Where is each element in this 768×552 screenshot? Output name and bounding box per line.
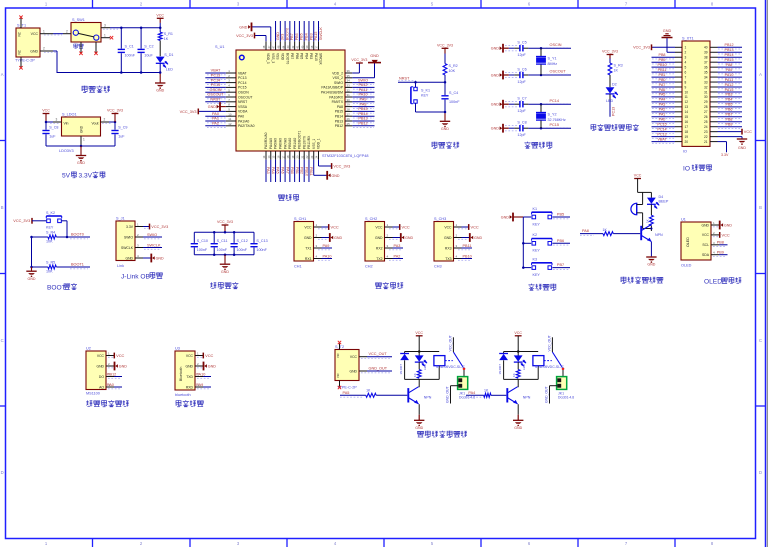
mcu right pin PA14/USB/DM [321,88,375,95]
svg-text:S_R2: S_R2 [449,64,458,68]
power port VCC_3V3 ldo [107,109,123,122]
net VCC_OUT [359,352,392,358]
svg-text:GND: GND [738,146,746,150]
svg-text:PA9: PA9 [360,98,367,102]
capacitor S_C5 / net OSCIN [491,41,571,57]
svg-text:PB6: PB6 [295,33,299,40]
mcu top pin PB5 [296,21,304,59]
svg-text:S_C4: S_C4 [449,91,458,95]
svg-text:100nF: 100nF [237,248,248,252]
svg-text:PA11: PA11 [359,88,368,92]
svg-text:OSCIN: OSCIN [550,43,562,47]
mcu right pin PB12 [335,122,375,129]
svg-text:1N4007: 1N4007 [498,364,502,375]
svg-text:VCC: VCC [331,225,339,230]
key K1 [523,207,570,227]
wire [650,226,652,231]
wire switch to conn [463,370,465,378]
svg-text:VCC_3V3: VCC_3V3 [633,46,650,50]
svg-text:PC15: PC15 [238,86,247,90]
label 开关 [73,44,83,49]
svg-text:PB3: PB3 [309,53,313,59]
jlink pin SWIO [143,233,162,239]
header left pin 15 PA1 [652,113,676,119]
svg-text:GND: GND [724,224,732,228]
svg-text:PA9: PA9 [196,383,203,387]
wire emitter [517,404,519,415]
svg-text:100nF: 100nF [217,248,228,252]
svg-text:PC14: PC14 [550,99,560,103]
pin RX1 S_CH1 [305,254,332,261]
wire top rail [194,231,254,234]
svg-text:1K: 1K [512,373,516,377]
svg-text:PB14: PB14 [724,53,733,57]
svg-text:PB4: PB4 [304,53,308,59]
capacitor S_C6 / net OSCOUT [491,67,571,83]
pin GND S_CH1 [304,233,343,242]
led D4 BEEP [647,192,669,208]
mcu left pin NRST [205,98,247,105]
svg-text:PA13/USB/DP: PA13/USB/DP [321,86,343,90]
svg-text:PB2: PB2 [300,167,304,174]
svg-text:PB5: PB5 [557,213,564,217]
svg-text:29: 29 [704,100,708,104]
wire emitter [418,404,420,415]
svg-text:LED: LED [423,363,427,370]
ground relay [513,415,523,430]
oled pin VCC [713,232,730,238]
svg-text:OLED: OLED [704,278,722,285]
mcu right pin PB14 [335,112,375,119]
svg-text:NRST: NRST [399,76,410,80]
svg-text:GND: GND [375,236,383,240]
svg-text:PA8: PA8 [726,63,733,67]
label 主芯片 [279,194,299,201]
svg-text:VBAT: VBAT [211,69,221,73]
ground boot [26,267,36,281]
pin VCC S_CH1 [304,223,339,230]
header right pin 36 PA8 [718,63,743,69]
svg-text:32.768KHz: 32.768KHz [548,118,566,122]
svg-text:GND: GND [239,25,247,29]
t2 pin bottom [338,381,341,390]
header right pin 34 PA10 [718,73,743,79]
svg-text:VCC_3V3: VCC_3V3 [333,164,350,168]
svg-text:SWCLK: SWCLK [147,243,161,247]
svg-text:D2: D2 [612,83,617,87]
svg-text:PA8: PA8 [360,102,367,106]
mcu right pin SWIO [334,78,375,85]
svg-text:bluetooth: bluetooth [175,393,191,397]
svg-text:PC13: PC13 [238,76,247,80]
svg-text:PA15: PA15 [314,32,318,41]
wire VCC rail [110,27,160,29]
svg-text:PA10: PA10 [196,372,205,376]
svg-text:10K: 10K [46,270,53,274]
svg-text:VCC: VCC [444,225,452,229]
svg-text:PB15: PB15 [724,58,733,62]
svg-text:J-Link OB: J-Link OB [121,273,151,280]
svg-text:SWIO: SWIO [124,235,133,239]
svg-text:NC: NC [18,31,22,36]
capacitor S_C11 [211,232,228,254]
svg-text:GND_OUT: GND_OUT [545,386,549,403]
svg-text:TX3: TX3 [445,257,451,261]
svg-text:PC13: PC13 [211,74,221,78]
svg-text:A: A [1,72,4,77]
header pins row 12 [675,100,718,104]
svg-text:1K: 1K [614,69,619,73]
svg-text:37: 37 [704,60,708,64]
u3 pin TXD [196,372,211,378]
svg-text:GND: GND [349,369,357,373]
header right pin 25 PB8 [718,118,743,124]
mcu bottom pin VDD_1 vcc [315,138,351,169]
pin TX2 S_CH2 [376,254,403,261]
svg-text:PB9: PB9 [726,123,733,127]
pin 3 [50,118,62,124]
header pins row 5 [675,65,718,69]
svg-text:D4: D4 [659,195,664,199]
svg-text:B: B [759,205,762,210]
svg-text:1: 1 [685,46,687,50]
svg-text:28: 28 [704,105,708,109]
svg-text:PC13: PC13 [612,107,616,116]
capacitor S_C2 [138,28,154,73]
wire [53,33,63,35]
oled U1 body [681,217,719,267]
svg-text:KEY: KEY [46,226,54,230]
svg-text:GND: GND [208,105,216,109]
jlink pin 3.3V [143,224,168,230]
svg-text:SRD-05VDC-SL-C: SRD-05VDC-SL-C [436,365,465,369]
label IO拓展口 [683,164,712,172]
svg-text:PA0: PA0 [238,115,244,119]
resistor S_R2 [443,64,458,75]
svg-text:PA15: PA15 [725,88,734,92]
svg-text:10: 10 [228,112,232,116]
capacitor S_C8 [42,122,58,146]
svg-text:S_C2: S_C2 [144,45,153,49]
svg-text:GND: GND [96,364,104,368]
svg-text:12: 12 [228,122,232,126]
svg-text:BOOT0: BOOT0 [71,232,84,236]
svg-text:40: 40 [704,46,708,50]
svg-text:VSS_3: VSS_3 [271,53,275,63]
svg-text:D: D [1,470,4,475]
svg-text:29: 29 [347,103,351,107]
svg-text:GND_OUT: GND_OUT [446,386,450,403]
svg-text:3V3: 3V3 [281,34,285,41]
header right pin 28 PB5 [718,103,743,109]
svg-text:1: 1 [83,138,85,142]
svg-text:1K: 1K [484,389,489,393]
svg-text:S_Y2: S_Y2 [548,113,557,117]
header left pin 17 PC15 [652,123,676,129]
svg-text:PA9: PA9 [323,244,330,248]
resistor S_R5 [46,261,56,274]
power port VCC ldo [42,109,50,122]
svg-text:SWCLK: SWCLK [319,53,323,66]
crystal S_Y2 32.768KHz [536,104,566,128]
svg-text:VDD: VDD [281,53,285,61]
header pins row 6 [675,70,718,74]
svg-text:VCC: VCC [402,225,410,230]
svg-text:31: 31 [347,93,351,97]
svg-text:VBAT: VBAT [657,137,667,141]
svg-text:PC14: PC14 [657,127,666,131]
mcu pin VSSA gnd [208,102,248,111]
svg-text:1: 1 [43,29,45,33]
svg-text:8: 8 [685,80,687,84]
svg-text:S_J1: S_J1 [116,216,125,220]
svg-text:S_R1: S_R1 [164,32,173,36]
header left pin 13 PA3 [652,103,676,109]
svg-text:GND: GND [28,277,36,281]
wire [61,221,68,238]
svg-text:GND: GND [441,127,449,131]
header pins row 3 [675,56,718,60]
header right pin 38 PB14 [718,53,743,59]
svg-text:S_T1: S_T1 [17,24,26,28]
svg-text:S_CH1: S_CH1 [294,217,306,221]
label 晶振电路 [524,142,552,149]
header pins row 14 [675,110,718,114]
power port VCC_3V3 boot [13,218,46,224]
svg-text:PB3: PB3 [726,93,733,97]
svg-text:23: 23 [704,130,708,134]
power port VCC alarm [634,174,642,193]
svg-text:A: A [759,72,762,77]
power port VCC relay [514,331,522,352]
mcu bottom pin PA3/RX/A0 [262,132,270,182]
pin TX1 S_CH1 [305,244,332,251]
svg-text:PA11: PA11 [725,78,733,82]
svg-text:PB9: PB9 [717,251,724,255]
svg-text:PB3: PB3 [309,33,313,40]
mcu right pin PA9/TX [332,98,375,105]
power port VCC_3V3 reset [437,44,453,64]
svg-text:GND: GND [501,216,509,220]
header right pin 40 PB12 [718,43,743,49]
svg-text:PB6: PB6 [295,53,299,59]
svg-text:GND: GND [156,89,164,93]
svg-text:PB13: PB13 [724,48,733,52]
capacitor S_C9 [111,122,127,146]
diode 1N4007 [498,352,508,380]
svg-text:NPN: NPN [424,396,432,400]
svg-text:SWIO: SWIO [358,78,368,82]
svg-text:S_CH2: S_CH2 [365,217,377,221]
svg-text:C: C [759,338,762,343]
svg-text:PC15: PC15 [550,123,560,127]
header left pin 6 PB11 [652,68,676,74]
svg-text:34: 34 [347,79,351,83]
svg-text:1K: 1K [164,37,169,41]
header pins row 17 [675,125,718,129]
mcu pin VDDA vcc [180,108,249,115]
svg-text:PA8: PA8 [337,105,343,109]
svg-text:1uF: 1uF [118,135,125,139]
wire [609,94,611,117]
svg-text:GND: GND [125,256,133,260]
wire gnd_out [545,386,558,404]
svg-text:KEY: KEY [533,249,541,253]
label JK1 [558,391,574,399]
svg-text:VCC_3V3: VCC_3V3 [236,34,253,38]
wire gnd_out [446,386,459,404]
header right pin 33 PA11 [718,78,743,84]
svg-text:VCC_3V3: VCC_3V3 [437,44,453,48]
svg-text:PB6: PB6 [726,108,733,112]
svg-text:4: 4 [685,60,687,64]
header pins row 8 [675,80,718,84]
net GND_OUT [359,367,392,373]
svg-text:GND: GND [491,103,499,107]
led relay [415,352,427,371]
svg-text:Vout: Vout [91,122,98,126]
svg-text:GND: GND [370,54,379,58]
part SRD-05VDC-SL-C [436,365,465,369]
mcu bottom pin PA7/A0 [281,138,289,182]
header left pin 9 PA7 [652,83,676,89]
svg-text:VDD_3: VDD_3 [266,53,270,64]
header pin2 gnd [662,29,676,52]
svg-text:32: 32 [704,85,708,89]
svg-text:18: 18 [685,130,689,134]
power port VCC_3V3 filter [217,220,233,232]
svg-text:OSCOUT: OSCOUT [550,70,567,74]
svg-text:35: 35 [704,70,708,74]
u3 pin VCC [197,353,214,359]
svg-text:3.3V: 3.3V [721,153,729,157]
svg-text:VSS_2: VSS_2 [332,76,343,80]
pin 2 [101,118,113,124]
mcu right pin PB15 [335,107,375,114]
svg-text:19: 19 [685,135,689,139]
svg-text:PA0: PA0 [212,112,219,116]
svg-text:AO: AO [99,385,104,389]
svg-text:VSS: VSS [276,53,280,60]
svg-text:PB9: PB9 [659,58,666,62]
mcu top pin PB7 [286,21,294,59]
svg-text:CH1: CH1 [294,264,302,268]
svg-text:PB0/A0: PB0/A0 [288,138,292,149]
bluetooth U3 body [175,346,203,397]
svg-text:PA0: PA0 [107,383,114,387]
svg-text:9: 9 [685,85,687,89]
svg-text:GND: GND [30,49,38,53]
resistor S_R3 [608,63,623,75]
ground [155,71,165,92]
header left pin 16 PA0 [652,118,676,124]
ground filter [220,255,230,274]
svg-text:S_C10: S_C10 [197,239,208,243]
mcu left pin OSCIN [205,88,249,95]
relay dashed link [544,360,552,362]
svg-text:1uF: 1uF [49,135,56,139]
sensor U2 MS1100 body [86,346,114,395]
header left pin 4 PB9 [652,58,676,64]
buzzer B1 [631,203,643,215]
svg-text:TXD: TXD [186,375,193,379]
svg-text:PB8: PB8 [659,53,666,57]
wire coil rail top [405,350,440,353]
mcu bottom pin PB1/A0 [291,138,299,182]
label OLED显示屏 [704,277,741,285]
svg-text:VCC: VCC [116,353,124,358]
crystal S_Y1 8MHz [536,48,557,75]
svg-text:C: C [1,338,4,343]
mcu left pin PC15 [205,83,246,90]
u3 pin RXD [196,383,211,389]
mcu top pin PB6 [291,21,299,59]
svg-text:S_CH3: S_CH3 [434,217,446,221]
svg-text:3: 3 [685,56,687,60]
power port VCC relay [415,331,423,352]
header left pin 14 PA2 [652,108,676,114]
svg-text:SDA: SDA [702,253,710,257]
ground reset [440,111,450,131]
svg-text:PA4: PA4 [659,98,666,102]
svg-text:3: 3 [104,23,106,27]
label 按键电路 [528,284,556,291]
svg-text:RX3: RX3 [445,246,452,250]
svg-text:36: 36 [704,65,708,69]
led relay [514,352,526,371]
svg-text:PA9/TX: PA9/TX [332,100,344,104]
svg-text:PA3: PA3 [659,103,666,107]
u2 pin DO [107,372,122,378]
svg-text:TX2: TX2 [376,257,382,261]
header pin21 3v3 [718,142,729,157]
svg-text:3.3V: 3.3V [126,225,134,229]
mcu bottom pin PA4/A0 [267,138,275,182]
svg-text:PB11: PB11 [658,68,667,72]
svg-text:1K: 1K [603,228,608,232]
key S_K2 [46,211,62,230]
mcu bottom pin PA6/A0 [277,138,285,182]
header left pin 8 PB0 [652,78,676,84]
svg-text:PA15: PA15 [314,53,318,61]
wire bottom rail [194,253,254,256]
svg-text:PB10/TX: PB10/TX [302,135,306,149]
pin 3 [101,23,118,29]
mcu left pin OSCOUT [205,93,252,100]
svg-text:11: 11 [228,117,231,121]
svg-text:STM32F103C8T6_LQFP48: STM32F103C8T6_LQFP48 [322,154,368,158]
wire [609,75,611,87]
svg-text:GND: GND [276,32,280,41]
svg-text:PA14/USB/DM: PA14/USB/DM [321,91,343,95]
label J-Link OB接口 [121,272,162,280]
svg-text:12pF: 12pF [517,53,526,57]
svg-text:DO: DO [99,375,104,379]
header right pin 32 PA12 [718,83,743,89]
svg-text:OSCIN: OSCIN [238,91,249,95]
relay coil [533,356,544,380]
svg-text:1K: 1K [366,389,371,393]
key K3 [523,257,570,277]
label 滤波电路 [210,282,238,289]
header right pin 24 PB9 [718,123,743,129]
header pins row 19 [675,135,718,139]
svg-text:OSCIN: OSCIN [209,88,221,92]
u2 pin AO [107,383,122,389]
pin 1 gnd [81,136,85,146]
svg-text:SWCLK: SWCLK [121,246,134,250]
header left pin 3 PB8 [652,53,676,59]
